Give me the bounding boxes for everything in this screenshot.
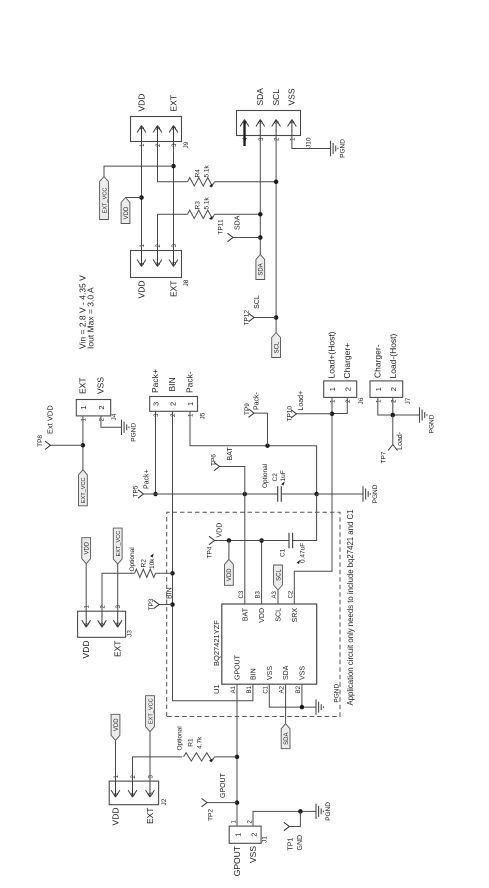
test point TP5 <box>138 490 144 498</box>
test point TP4 <box>209 536 215 544</box>
node TP3 on BIN line <box>170 602 175 607</box>
svg-text:PGND: PGND <box>340 139 347 158</box>
node R3 on SDA line <box>258 212 263 217</box>
svg-text:SCL: SCL <box>276 569 282 581</box>
svg-text:VDD: VDD <box>111 808 121 826</box>
wire J2 pin1 to VDD flag <box>115 740 117 781</box>
svg-text:1: 1 <box>290 121 296 124</box>
svg-text:J9: J9 <box>183 141 190 148</box>
node C1 top / VDD row <box>259 538 264 543</box>
wire BAT row from U1 BAT to TP6 <box>220 467 245 605</box>
svg-text:SCL: SCL <box>274 341 280 353</box>
node TP9 on Pack- wire <box>265 443 270 448</box>
connector J2 <box>109 781 158 805</box>
test point TP9 <box>249 409 255 417</box>
wire VSS node to ground <box>317 493 363 495</box>
svg-text:1uF: 1uF <box>280 470 287 481</box>
ground PGND at J7 <box>420 407 427 422</box>
wire U1 GPOUT row to J1 <box>236 684 238 826</box>
svg-text:Load+(Host): Load+(Host) <box>327 331 337 378</box>
connector J9 <box>131 117 182 142</box>
wire EXT row J8 pin3 to J9 pin3 <box>173 142 175 251</box>
wire SCL line J10 pin2 to SCL flag <box>275 135 277 333</box>
svg-text:SRX: SRX <box>292 608 299 623</box>
svg-text:5.1k: 5.1k <box>204 196 211 209</box>
wire R1 to GPOUT <box>215 756 238 758</box>
node TP12 on SCL line <box>274 315 279 320</box>
svg-text:EXT: EXT <box>113 641 123 658</box>
connector J4 <box>76 400 110 416</box>
connector J6 <box>324 381 357 398</box>
svg-text:TP1: TP1 <box>288 838 295 851</box>
svg-text:2: 2 <box>131 792 137 795</box>
svg-text:3: 3 <box>152 402 161 406</box>
svg-text:VDD: VDD <box>137 281 147 299</box>
svg-text:BIN: BIN <box>167 587 174 599</box>
svg-text:VDD: VDD <box>227 568 233 581</box>
connector J7 <box>370 381 403 398</box>
svg-text:2: 2 <box>250 833 259 837</box>
svg-text:BIN: BIN <box>167 377 177 391</box>
wire J4 pin2 to ground <box>101 416 122 427</box>
wire J3 pin1 to VDD flag <box>85 564 87 612</box>
svg-text:VSS: VSS <box>287 88 297 105</box>
svg-text:SCL: SCL <box>276 608 283 622</box>
no-connect stub J10 pin4 <box>243 122 245 147</box>
node VDD flag tap on pin1 row <box>139 195 144 200</box>
svg-text:2: 2 <box>156 127 162 130</box>
node TP11 on SDA line <box>258 235 263 240</box>
svg-text:1: 1 <box>186 402 195 406</box>
svg-text:2: 2 <box>100 622 106 625</box>
svg-text:R1: R1 <box>188 738 195 747</box>
test point TP11 <box>228 233 234 241</box>
svg-text:TP11: TP11 <box>218 219 225 234</box>
test point TP10 <box>291 410 297 418</box>
wire R4 to SCL line <box>215 181 277 183</box>
flag EXT_VCC near J9 <box>100 177 109 220</box>
svg-text:EXT: EXT <box>78 377 88 394</box>
connector J10 <box>237 111 301 136</box>
wire TP4 branch <box>215 540 262 542</box>
svg-text:VSS: VSS <box>96 377 106 394</box>
node VSS junction <box>314 492 319 497</box>
svg-text:VDD: VDD <box>259 608 266 623</box>
test point TP2 <box>202 798 208 806</box>
svg-text:EXT: EXT <box>169 281 179 298</box>
svg-text:VSS: VSS <box>248 846 258 863</box>
wire Pack+ J5 pin3 to BAT rail <box>155 411 157 494</box>
svg-text:TP8: TP8 <box>37 435 44 447</box>
flag VDD near J2 <box>111 714 120 740</box>
svg-text:2: 2 <box>169 402 178 406</box>
svg-text:VDD: VDD <box>137 94 147 112</box>
node TP1 tap <box>298 809 303 814</box>
test point TP8 <box>45 441 51 449</box>
node J6 junction <box>330 412 335 417</box>
svg-text:Optional: Optional <box>262 463 269 488</box>
ground PGND at C2 <box>363 486 370 501</box>
node BAT row crossing <box>243 492 248 497</box>
wire U1 SCL pin to flag <box>277 590 279 604</box>
svg-text:1: 1 <box>328 387 337 391</box>
svg-text:EXT_VCC: EXT_VCC <box>116 531 122 557</box>
resistor R2 10k <box>135 569 156 577</box>
test point TP1 <box>284 822 290 830</box>
svg-text:A1: A1 <box>231 685 237 693</box>
svg-text:C1: C1 <box>280 548 287 557</box>
svg-text:Optional: Optional <box>129 547 136 572</box>
resistor R3 5.1k <box>188 210 215 218</box>
svg-text:VSS: VSS <box>267 666 274 680</box>
svg-text:SDA: SDA <box>235 215 242 230</box>
ground PGND at U1 <box>316 699 323 714</box>
wire SDA line J10 pin3 to SDA flag <box>259 135 261 255</box>
svg-text:1: 1 <box>85 622 91 625</box>
connector J5 <box>150 397 198 412</box>
svg-text:10k: 10k <box>149 558 156 569</box>
node R2 on BIN line <box>170 571 175 576</box>
svg-text:EXT_VCC: EXT_VCC <box>102 188 108 214</box>
svg-text:TP4: TP4 <box>207 546 214 558</box>
node J7 junction <box>391 413 396 418</box>
dashed application circuit boundary <box>167 512 340 716</box>
svg-text:B3: B3 <box>256 590 262 598</box>
wire from EXT_VCC flag to pin3 row <box>104 166 174 176</box>
wire C1 bottom to VSS node <box>293 494 317 541</box>
wire VDD row J8 pin1 to J9 pin1 <box>141 142 143 251</box>
node TP2 on GPOUT <box>235 800 240 805</box>
svg-text:SDA: SDA <box>259 263 265 275</box>
svg-text:J7: J7 <box>405 397 412 404</box>
wire BAT rail Pack+ down to C2 <box>156 493 278 495</box>
svg-text:VDD: VDD <box>217 523 224 538</box>
node TP8 tap <box>81 443 86 448</box>
connector J3 <box>78 611 126 637</box>
node R4 on SCL line <box>274 180 279 185</box>
svg-text:GPOUT: GPOUT <box>235 654 242 680</box>
wire from VDD flag to pin1 row <box>126 197 142 199</box>
wire J9 pin2 to resistor R4 <box>158 142 188 182</box>
wire BIN line from J5 pin2 to U1 B1 <box>173 411 253 701</box>
wire R2 to BIN line <box>156 572 173 574</box>
svg-text:PGND: PGND <box>131 423 138 442</box>
wire J3 pin2 to R2 <box>102 573 135 611</box>
svg-text:U1: U1 <box>212 684 221 694</box>
wire J2 pin3 to EXT_VCC flag <box>149 732 151 781</box>
svg-text:PGND: PGND <box>429 414 436 433</box>
flag SCL near TP12 <box>272 333 281 358</box>
svg-text:Pack+: Pack+ <box>144 469 151 489</box>
node VDD flag tap <box>227 538 232 543</box>
node R1 on GPOUT <box>235 755 240 760</box>
svg-text:R2: R2 <box>141 559 148 568</box>
wire EXT_VCC flag to J4 pin1 <box>82 416 84 470</box>
svg-text:C2: C2 <box>288 590 294 598</box>
wire J3 pin3 to EXT_VCC flag <box>117 564 119 611</box>
svg-text:TP7: TP7 <box>381 451 388 463</box>
wire U1 SRX to Load+ node <box>294 414 332 604</box>
svg-text:2: 2 <box>156 262 162 265</box>
svg-text:Ext VDD: Ext VDD <box>46 405 55 434</box>
flag SDA near U1 <box>281 724 290 749</box>
svg-text:BAT: BAT <box>242 607 249 621</box>
svg-text:TP12: TP12 <box>244 310 251 326</box>
svg-text:Charger-: Charger- <box>373 344 383 378</box>
svg-text:2: 2 <box>97 405 106 409</box>
svg-text:Application circuit only needs: Application circuit only needs to includ… <box>346 510 355 706</box>
test point TP12 <box>249 313 255 321</box>
svg-text:Load-: Load- <box>397 431 404 450</box>
ground PGND at J4 <box>122 420 129 435</box>
svg-text:3: 3 <box>116 622 122 625</box>
svg-text:Optional: Optional <box>177 726 184 751</box>
svg-text:TP10: TP10 <box>287 406 294 422</box>
svg-text:SDA: SDA <box>284 733 290 745</box>
svg-text:SCL: SCL <box>271 89 281 106</box>
svg-text:TP6: TP6 <box>211 454 218 466</box>
svg-text:5.1k: 5.1k <box>204 164 211 177</box>
capacitor C1 0.47uF <box>262 540 289 542</box>
svg-text:EXT: EXT <box>145 808 155 825</box>
IC U1 bq27421YZF <box>222 604 317 684</box>
flag VDD near J3 <box>82 538 91 564</box>
svg-text:Load-(Host): Load-(Host) <box>388 333 398 378</box>
svg-text:GND: GND <box>297 835 304 851</box>
wire VDD flag to TP4 branch <box>228 541 230 560</box>
svg-text:2: 2 <box>274 121 280 124</box>
wire J1 pin2 to ground <box>253 811 316 826</box>
svg-text:TP2: TP2 <box>208 809 215 821</box>
svg-text:TP5: TP5 <box>133 485 140 497</box>
wire VDD row from U1 VDD pin to C1 <box>261 541 263 605</box>
ground PGND at J1 <box>316 804 323 819</box>
svg-text:EXT_VCC: EXT_VCC <box>148 698 154 724</box>
svg-text:SDA: SDA <box>283 665 290 680</box>
flag EXT_VCC near J2 <box>146 696 155 732</box>
svg-text:1: 1 <box>114 792 120 795</box>
svg-text:1: 1 <box>79 405 88 409</box>
node VSS B2 <box>300 705 305 710</box>
flag EXT_VCC near J3 <box>113 528 122 564</box>
svg-text:VSS: VSS <box>300 666 307 680</box>
svg-text:A2: A2 <box>280 685 286 693</box>
svg-text:Pack+: Pack+ <box>150 369 160 393</box>
svg-text:R4: R4 <box>195 169 202 178</box>
test point TP3 <box>154 600 160 608</box>
node TP5 / rail top <box>153 492 158 497</box>
svg-text:EXT_VCC: EXT_VCC <box>81 477 87 503</box>
svg-text:0.47uF: 0.47uF <box>300 543 307 563</box>
svg-text:J8: J8 <box>183 279 190 286</box>
capacitor C2 1uF <box>278 486 282 502</box>
wire J8 pin2 to resistor R3 <box>158 214 188 250</box>
svg-text:BIN: BIN <box>251 668 258 680</box>
flag SCL near U1 <box>274 565 283 590</box>
connector J8 <box>131 251 182 278</box>
svg-text:1: 1 <box>140 262 146 265</box>
svg-text:J6: J6 <box>358 397 365 404</box>
wire J6 pins to Load+ node <box>331 397 333 413</box>
svg-text:BQ27421YZF: BQ27421YZF <box>212 620 221 666</box>
svg-text:SCL: SCL <box>254 295 261 309</box>
svg-text:PGND: PGND <box>334 684 341 703</box>
wire J7 pin1 to pin2 node <box>378 397 393 415</box>
node EXT_VCC flag tap on pin3 row <box>171 164 176 169</box>
svg-text:B2: B2 <box>296 685 302 693</box>
svg-text:1: 1 <box>374 387 383 391</box>
svg-text:Charger+: Charger+ <box>342 343 352 379</box>
wire J2 pin2 to R1 <box>133 757 183 781</box>
resistor R1 4.7k <box>184 753 215 761</box>
wire U1 VSS pins to ground <box>269 684 316 707</box>
svg-text:VDD: VDD <box>81 641 91 659</box>
svg-text:VDD: VDD <box>85 541 91 554</box>
svg-text:PGND: PGND <box>372 484 379 503</box>
flag VDD near J8 <box>121 198 130 224</box>
wire J7 pin2 to ground <box>393 397 420 415</box>
svg-text:J2: J2 <box>161 798 168 805</box>
svg-text:A3: A3 <box>272 590 278 598</box>
svg-text:C3: C3 <box>239 590 245 598</box>
flag SDA near TP11 <box>256 255 265 280</box>
svg-text:Pack-: Pack- <box>185 371 195 393</box>
svg-text:3: 3 <box>172 262 178 265</box>
svg-text:1: 1 <box>234 833 243 837</box>
wire R3 to SDA line <box>215 213 261 215</box>
svg-text:BAT: BAT <box>227 447 234 461</box>
svg-text:4.7k: 4.7k <box>197 736 204 749</box>
svg-text:J10: J10 <box>306 137 313 148</box>
ground PGND at J10 <box>331 141 338 156</box>
wire C2 to VSS node <box>281 493 316 495</box>
svg-text:1: 1 <box>140 127 146 130</box>
svg-text:J3: J3 <box>127 630 134 637</box>
wire U1 SDA pin to flag <box>285 684 287 724</box>
svg-text:J1: J1 <box>262 836 269 843</box>
svg-text:C2: C2 <box>272 473 279 482</box>
svg-text:PGND: PGND <box>325 802 332 821</box>
connector J1 <box>229 826 261 843</box>
svg-text:GPOUT: GPOUT <box>220 772 227 798</box>
test point TP6 <box>214 462 220 470</box>
svg-text:GPOUT: GPOUT <box>232 846 242 876</box>
svg-text:2: 2 <box>343 387 352 391</box>
svg-text:VDD: VDD <box>114 718 120 731</box>
wire Pack- from J5 pin1 to VSS node <box>190 411 317 494</box>
svg-text:B1: B1 <box>247 685 253 693</box>
svg-text:Iout Max = 3.0 A: Iout Max = 3.0 A <box>86 287 96 349</box>
svg-text:J4: J4 <box>111 413 118 420</box>
svg-text:3: 3 <box>148 792 154 795</box>
svg-text:SDA: SDA <box>255 88 265 106</box>
svg-text:VDD: VDD <box>124 206 130 219</box>
svg-text:Load+: Load+ <box>298 391 305 411</box>
svg-text:3: 3 <box>259 121 265 124</box>
svg-text:EXT: EXT <box>169 95 179 112</box>
svg-text:R3: R3 <box>195 201 202 210</box>
wire J10 pin1 to ground <box>292 135 331 149</box>
resistor R4 5.1k <box>188 178 215 186</box>
svg-text:Pack-: Pack- <box>254 391 261 410</box>
svg-text:TP3: TP3 <box>148 598 155 610</box>
test point TP7 <box>388 445 397 451</box>
svg-text:2: 2 <box>389 387 398 391</box>
flag VDD near TP4 <box>225 559 234 585</box>
svg-text:TP9: TP9 <box>244 403 251 415</box>
svg-text:C1: C1 <box>263 685 269 693</box>
svg-text:J5: J5 <box>200 412 207 419</box>
flag EXT_VCC near J4 <box>79 470 88 506</box>
svg-text:3: 3 <box>172 127 178 130</box>
